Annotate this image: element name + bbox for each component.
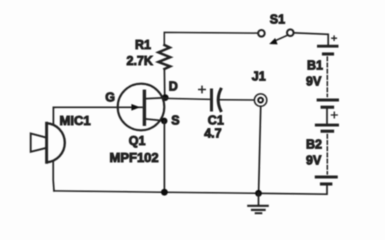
wire battery B2 to bottom rail	[259, 185, 327, 195]
svg-text:S: S	[171, 114, 179, 128]
battery B1 bottom short plate	[322, 106, 333, 109]
svg-text:S1: S1	[270, 13, 285, 27]
battery B1 top short plate	[324, 52, 333, 55]
capacitor C1 right curved plate	[218, 89, 221, 110]
node S junction dot	[161, 118, 168, 125]
microphone MIC1 cone	[31, 134, 45, 152]
transistor Q1 source lead	[145, 119, 164, 121]
transistor Q1 gate lead with arrow	[55, 104, 142, 111]
switch S1 left contact circle	[258, 30, 265, 37]
battery B1 dashed cell line	[326, 57, 328, 97]
wire S1 to battery B1 top	[294, 33, 329, 45]
svg-text:4.7: 4.7	[204, 126, 221, 140]
wire source down to bottom rail	[163, 121, 165, 192]
svg-text:G: G	[105, 91, 115, 105]
svg-text:Q1: Q1	[129, 134, 146, 148]
svg-text:MIC1: MIC1	[60, 113, 91, 128]
jack J1 outer circle	[254, 94, 266, 106]
svg-text:B1: B1	[307, 59, 323, 73]
svg-text:R1: R1	[135, 38, 151, 52]
transistor Q1 circle	[118, 84, 165, 131]
battery B2 dashed cell line	[326, 135, 328, 175]
battery B2 bottom short plate	[322, 182, 331, 185]
battery B2 bottom long plate	[316, 176, 336, 179]
battery B1 bottom long plate	[318, 99, 337, 102]
capacitor C1 plus sign	[199, 86, 205, 92]
transistor Q1 drain lead	[145, 97, 165, 100]
battery B2 plus sign	[331, 112, 337, 118]
svg-text:MPF102: MPF102	[110, 150, 159, 165]
svg-text:J1: J1	[252, 70, 266, 84]
resistor R1	[158, 45, 170, 69]
node D junction dot	[162, 94, 169, 101]
battery B1 top long plate	[319, 45, 338, 48]
junction dot source to rail	[161, 189, 168, 196]
wire capacitor to jack J1	[220, 99, 255, 101]
wire bottom rail	[54, 191, 259, 193]
svg-text:9V: 9V	[306, 154, 322, 168]
battery B2 top short plate	[322, 130, 333, 133]
junction dot jack to rail ground	[255, 190, 262, 197]
capacitor C1 left plate	[210, 90, 213, 110]
svg-text:C1: C1	[208, 113, 224, 127]
microphone MIC1 shell	[47, 123, 65, 162]
svg-text:2.7K: 2.7K	[127, 54, 153, 68]
svg-text:B2: B2	[306, 138, 322, 152]
wire top rail from R1 top to S1	[164, 32, 258, 45]
battery B1 plus sign	[332, 36, 337, 40]
wire R1 bottom lead to drain node	[163, 69, 165, 95]
jack J1 inner ring	[258, 98, 263, 103]
wire mic top lead from gate	[53, 107, 55, 123]
switch S1 lever with arrowhead	[269, 35, 288, 44]
wire mic bottom lead to rail	[52, 162, 55, 191]
battery B2 top long plate	[316, 124, 337, 127]
switch S1 right contact circle	[287, 29, 294, 36]
svg-text:9V: 9V	[306, 75, 322, 89]
wire jack J1 down to bottom rail	[259, 106, 261, 192]
wire drain node to capacitor C1	[165, 97, 210, 100]
transistor Q1 channel bar	[143, 91, 146, 124]
wire between battery B1 and B2	[326, 108, 328, 124]
ground symbol	[248, 193, 267, 213]
svg-text:D: D	[169, 79, 178, 93]
